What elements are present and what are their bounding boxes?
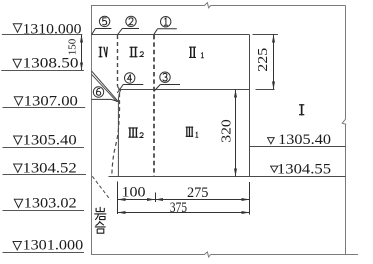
dashed fault curve — [112, 87, 120, 176]
slope double line — [92, 71, 118, 102]
callout 6 — [92, 87, 118, 102]
zone label III2 — [128, 127, 143, 137]
elevation label 1301.000 — [3, 238, 85, 254]
extension for dim 225 bottom — [256, 89, 275, 91]
elevation label 1310.000 — [2, 21, 82, 37]
svg-text:1307.00: 1307.00 — [24, 93, 78, 109]
dashed divider II2/II1 + III2/III1 — [153, 35, 155, 177]
zone label IV — [99, 47, 108, 58]
callout 3 — [154, 72, 180, 92]
svg-text:1301.000: 1301.000 — [23, 238, 84, 254]
top border with break — [91, 3, 346, 8]
callout 1 — [154, 17, 177, 35]
elevation label 1303.02 — [3, 196, 85, 212]
right border with break — [342, 6, 346, 255]
zone label II2 — [130, 47, 144, 58]
svg-text:1305.40: 1305.40 — [278, 132, 331, 148]
dashed divider IV/II2 — [117, 35, 119, 87]
zone label I — [299, 104, 304, 115]
bottom border with break — [91, 252, 358, 257]
rock bench leader dashed — [92, 176, 110, 200]
left border — [91, 6, 93, 255]
callout 2 — [118, 16, 139, 34]
svg-text:225: 225 — [255, 47, 270, 71]
svg-text:275: 275 — [187, 185, 209, 201]
svg-text:375: 375 — [170, 200, 187, 216]
svg-text:100: 100 — [122, 184, 146, 200]
box middle line (1308 level bench) — [120, 89, 250, 91]
dimension 275 — [155, 185, 250, 201]
rock bench text tai (台) — [95, 221, 106, 233]
elevation label 1304.52 — [3, 161, 87, 177]
rock bench text yan (岩) — [94, 207, 106, 220]
elevation label 1305.40 right — [268, 132, 331, 148]
svg-text:1303.02: 1303.02 — [24, 196, 77, 212]
dimension 100 — [118, 184, 156, 201]
lower box left solid edge — [118, 90, 121, 177]
callout 5 — [92, 16, 112, 34]
box top line (1310.000 level) — [92, 34, 250, 36]
zone label II1 — [189, 47, 204, 58]
svg-text:1304.55: 1304.55 — [277, 161, 331, 177]
callout 4 — [117, 73, 143, 93]
svg-text:1308.50: 1308.50 — [23, 56, 79, 72]
main right vertical of boxes — [249, 35, 251, 177]
svg-text:1305.40: 1305.40 — [23, 133, 77, 149]
bottom dims extension lines — [118, 182, 250, 215]
dimension 225 — [255, 35, 275, 90]
water line 1305.40 right — [250, 146, 346, 148]
elevation label 1304.55 right — [271, 161, 331, 177]
dimension 320 — [218, 90, 237, 177]
extension for dim 225 top — [253, 34, 279, 36]
elevation label 1305.40 left — [3, 133, 85, 149]
elevation label 1308.50 — [1, 56, 84, 72]
dimension 375 — [118, 200, 250, 216]
svg-text:320: 320 — [218, 119, 233, 143]
svg-text:150: 150 — [67, 38, 79, 55]
zone label III1 — [186, 127, 199, 138]
elevation label 1307.00 — [3, 93, 86, 109]
dimension 150 — [67, 35, 84, 71]
ground line (1304.5 level) — [109, 176, 346, 178]
